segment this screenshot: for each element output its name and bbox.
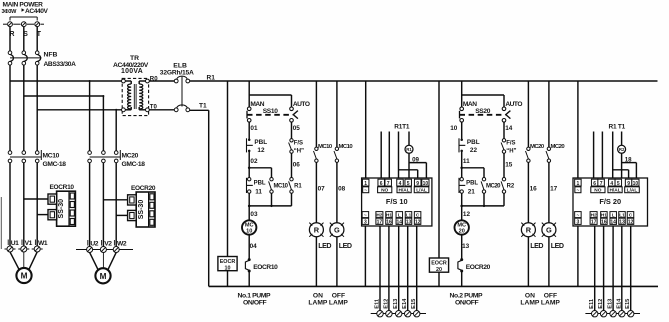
svg-text:W1: W1 — [38, 240, 48, 247]
svg-text:AUTO: AUTO — [505, 101, 522, 108]
svg-text:E13: E13 — [393, 299, 399, 309]
svg-text:18: 18 — [625, 156, 632, 163]
svg-text:ON/OFF: ON/OFF — [455, 299, 479, 306]
svg-text:H1: H1 — [386, 213, 392, 218]
svg-text:LED: LED — [551, 242, 564, 250]
svg-text:100VA: 100VA — [121, 68, 143, 75]
svg-text:12: 12 — [628, 219, 634, 225]
svg-text:E14: E14 — [402, 298, 408, 309]
svg-text:LED: LED — [530, 242, 543, 250]
svg-text:“H”: “H” — [506, 148, 516, 154]
svg-text:PBL: PBL — [467, 139, 480, 146]
svg-text:“H”: “H” — [294, 148, 304, 154]
svg-text:H/AL: H/AL — [609, 188, 620, 194]
svg-text:LAMP: LAMP — [308, 299, 327, 306]
svg-text:W2: W2 — [117, 240, 127, 247]
svg-text:MC10: MC10 — [43, 153, 60, 160]
svg-text:1: 1 — [364, 181, 367, 187]
svg-text:E14: E14 — [616, 298, 622, 309]
svg-text:~: ~ — [364, 189, 367, 194]
svg-text:EOCR: EOCR — [431, 261, 447, 267]
svg-text:14: 14 — [610, 219, 616, 225]
svg-text:15: 15 — [505, 161, 513, 168]
svg-text:SS-30: SS-30 — [138, 200, 145, 220]
svg-text:4: 4 — [610, 181, 613, 187]
svg-text:4: 4 — [399, 181, 402, 187]
svg-text:6: 6 — [593, 181, 596, 187]
svg-text:~: ~ — [577, 213, 580, 218]
svg-text:MC20: MC20 — [122, 153, 139, 160]
svg-text:11: 11 — [463, 158, 470, 165]
svg-text:U2: U2 — [90, 240, 98, 247]
svg-text:17: 17 — [591, 219, 597, 225]
svg-text:M: M — [100, 272, 107, 281]
svg-text:NO: NO — [381, 188, 388, 194]
svg-text:12: 12 — [463, 211, 471, 218]
svg-text:EOCR20: EOCR20 — [466, 264, 491, 271]
svg-text:AUTO: AUTO — [293, 101, 310, 108]
svg-text:V1: V1 — [25, 240, 33, 247]
svg-text:R2: R2 — [619, 147, 625, 152]
svg-text:10: 10 — [450, 125, 458, 132]
svg-text:SS-30: SS-30 — [58, 199, 65, 219]
svg-text:G: G — [546, 225, 552, 234]
svg-text:PBL: PBL — [254, 181, 266, 187]
svg-text:~: ~ — [576, 189, 579, 194]
svg-text:H2: H2 — [376, 213, 382, 218]
svg-text:PBL: PBL — [254, 139, 267, 146]
svg-text:EOCR10: EOCR10 — [50, 184, 75, 191]
svg-text:F/S: F/S — [294, 140, 303, 146]
svg-text:MC10: MC10 — [339, 144, 354, 150]
svg-text:EOCR20: EOCR20 — [131, 185, 156, 192]
svg-text:LAMP: LAMP — [329, 299, 348, 306]
svg-text:5: 5 — [407, 181, 410, 187]
svg-text:E13: E13 — [608, 299, 614, 309]
svg-text:1: 1 — [577, 181, 580, 187]
svg-text:9: 9 — [627, 181, 630, 187]
svg-text:E11: E11 — [375, 299, 381, 309]
svg-text:E12: E12 — [598, 299, 604, 309]
svg-text:21: 21 — [468, 188, 476, 195]
svg-text:10: 10 — [633, 181, 639, 187]
svg-text:EOCR10: EOCR10 — [253, 264, 278, 271]
svg-text:MC20: MC20 — [530, 144, 545, 150]
svg-text:01: 01 — [250, 125, 258, 132]
svg-text:3Φ3W: 3Φ3W — [2, 9, 18, 15]
svg-text:08: 08 — [338, 185, 346, 192]
svg-text:10: 10 — [225, 265, 231, 271]
svg-text:03: 03 — [250, 211, 258, 218]
svg-text:SS20: SS20 — [475, 108, 491, 115]
svg-text:12: 12 — [415, 219, 421, 225]
svg-text:5: 5 — [617, 181, 620, 187]
svg-text:16: 16 — [530, 185, 538, 192]
svg-text:14: 14 — [505, 125, 513, 132]
svg-text:20: 20 — [436, 267, 442, 273]
svg-text:MC20: MC20 — [486, 183, 501, 189]
svg-text:L: L — [612, 213, 615, 218]
svg-text:05: 05 — [293, 125, 301, 132]
svg-text:7: 7 — [600, 181, 603, 187]
svg-text:G: G — [334, 225, 340, 234]
svg-text:R: R — [526, 225, 532, 234]
svg-text:17: 17 — [377, 219, 383, 225]
svg-text:R1T1: R1T1 — [394, 124, 410, 131]
svg-text:13: 13 — [462, 243, 470, 250]
svg-text:L1: L1 — [406, 213, 412, 218]
svg-text:R1: R1 — [406, 147, 412, 152]
svg-text:14: 14 — [397, 219, 403, 225]
svg-text:LED: LED — [339, 242, 352, 250]
svg-text:16: 16 — [601, 219, 607, 225]
svg-text:L/AL: L/AL — [627, 188, 638, 194]
svg-text:L: L — [398, 213, 401, 218]
svg-text:LAMP: LAMP — [541, 299, 560, 306]
svg-text:E15: E15 — [411, 299, 417, 309]
svg-text:NFB: NFB — [44, 51, 58, 58]
svg-text:16: 16 — [386, 219, 392, 225]
svg-text:ON/OFF: ON/OFF — [243, 299, 267, 306]
svg-text:H/AL: H/AL — [398, 188, 409, 194]
svg-text:12: 12 — [257, 147, 265, 154]
svg-text:32GRh/15A: 32GRh/15A — [160, 69, 194, 76]
svg-text:MC10: MC10 — [318, 144, 333, 150]
svg-text:LED: LED — [318, 242, 331, 250]
svg-text:MC10: MC10 — [274, 183, 289, 189]
svg-text:H1: H1 — [601, 213, 607, 218]
svg-text:V2: V2 — [104, 240, 112, 247]
svg-text:06: 06 — [293, 161, 301, 168]
svg-text:GMC-18: GMC-18 — [43, 161, 67, 168]
svg-text:T1: T1 — [199, 103, 207, 110]
svg-text:7: 7 — [387, 181, 390, 187]
svg-text:L/AL: L/AL — [416, 188, 427, 194]
svg-text:F/S: F/S — [506, 140, 515, 146]
svg-text:NO: NO — [594, 188, 601, 194]
svg-text:~: ~ — [364, 213, 367, 218]
svg-text:04: 04 — [250, 243, 258, 250]
svg-text:13: 13 — [406, 219, 412, 225]
svg-text:3: 3 — [364, 219, 367, 225]
svg-text:E15: E15 — [625, 299, 631, 309]
svg-text:LAMP: LAMP — [520, 299, 539, 306]
svg-text:ABS33/30A: ABS33/30A — [44, 61, 77, 68]
svg-text:EOCR: EOCR — [220, 259, 236, 265]
svg-text:17: 17 — [550, 185, 558, 192]
svg-text:R2: R2 — [507, 183, 515, 189]
svg-text:PBL: PBL — [466, 181, 478, 187]
svg-text:AC440V: AC440V — [25, 8, 49, 15]
svg-text:M: M — [21, 272, 28, 281]
svg-text:MC20: MC20 — [551, 144, 566, 150]
svg-text:R: R — [314, 225, 320, 234]
svg-text:02: 02 — [250, 158, 258, 165]
svg-text:3: 3 — [577, 219, 580, 225]
svg-text:22: 22 — [470, 147, 478, 154]
svg-text:10: 10 — [423, 181, 429, 187]
svg-text:11: 11 — [255, 188, 262, 195]
svg-text:R1: R1 — [294, 183, 302, 189]
svg-text:H2: H2 — [591, 213, 597, 218]
svg-text:R1 T1: R1 T1 — [609, 124, 626, 131]
svg-text:SS10: SS10 — [263, 108, 279, 115]
svg-text:E12: E12 — [383, 299, 389, 309]
svg-text:13: 13 — [619, 219, 625, 225]
svg-text:E11: E11 — [589, 299, 595, 309]
svg-text:F/S 20: F/S 20 — [599, 197, 621, 206]
svg-text:9: 9 — [416, 181, 419, 187]
svg-text:09: 09 — [412, 156, 419, 163]
svg-text:6: 6 — [380, 181, 383, 187]
svg-text:GMC-18: GMC-18 — [122, 161, 146, 168]
svg-text:F/S 10: F/S 10 — [386, 197, 408, 206]
svg-text:MAN: MAN — [463, 101, 477, 108]
svg-text:L1: L1 — [619, 213, 625, 218]
svg-text:MAN: MAN — [250, 101, 264, 108]
svg-text:07: 07 — [318, 185, 326, 192]
svg-text:U1: U1 — [11, 240, 19, 247]
